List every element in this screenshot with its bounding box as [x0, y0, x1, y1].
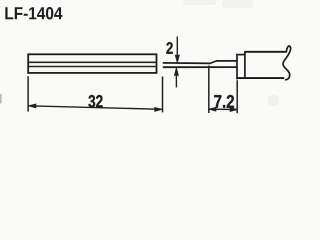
bar body outline (32mm bar, front view)	[28, 54, 156, 73]
dim 32 dimension line with arrows	[29, 104, 162, 111]
dim 7.2 value label	[214, 95, 234, 108]
bar inner line lower	[29, 66, 156, 68]
scan smudge at left edge	[0, 94, 2, 104]
dim 32 extension line right	[162, 77, 164, 113]
dim 2 lower leader with up arrow	[175, 68, 179, 87]
socket step vertical	[236, 54, 238, 79]
blade bottom edge line	[163, 66, 238, 68]
socket mid top line	[216, 60, 238, 62]
title label LF-1404	[5, 7, 62, 19]
dim 32 extension line left	[27, 76, 29, 111]
dim 32 value label	[88, 95, 102, 108]
bar inner line upper	[29, 61, 156, 63]
dim 7.2 extension line left	[208, 66, 210, 113]
break squiggle at barrel right end	[283, 46, 291, 80]
dim 7.2 extension line right	[236, 80, 238, 113]
blade top edge line (2mm edge view)	[163, 62, 210, 65]
collar top line	[236, 54, 245, 56]
dim 2 value label	[166, 42, 172, 54]
taper diagonal into socket	[209, 61, 217, 64]
barrel bottom line	[237, 77, 285, 79]
faint scan smudge bottom right	[268, 95, 279, 106]
dim 7.2 dimension line with arrows	[209, 108, 237, 112]
dim 2 upper leader with down arrow	[175, 37, 179, 63]
barrel top line	[245, 51, 287, 53]
faint scan smudge top left	[183, 0, 216, 5]
faint scan smudge top mid	[222, 0, 253, 8]
barrel left vertical	[244, 51, 246, 77]
